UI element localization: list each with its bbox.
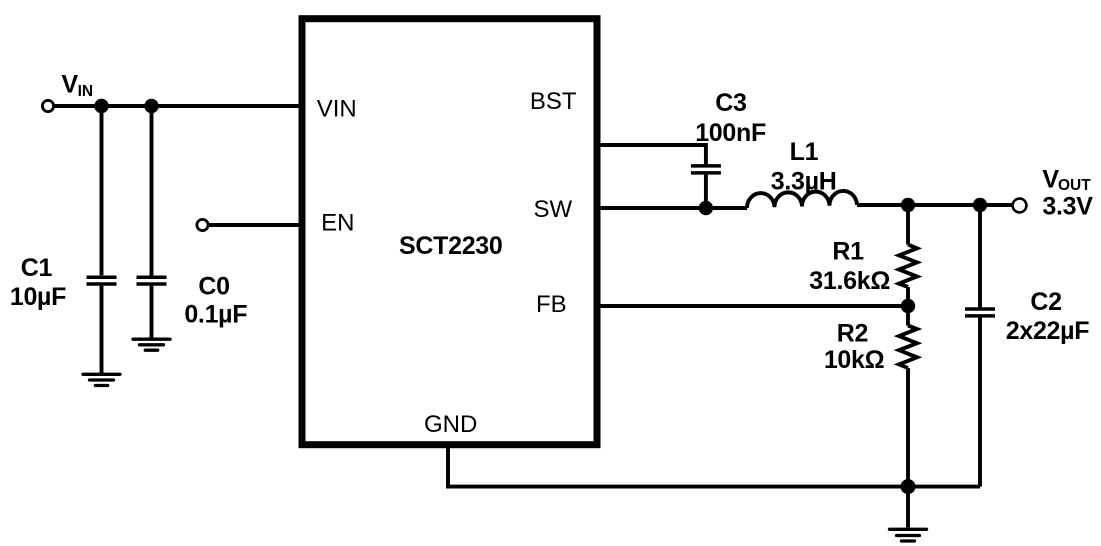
svg-text:C1: C1 xyxy=(21,254,53,282)
junction dot SW/C3 xyxy=(699,201,713,215)
capacitor C3 plates xyxy=(691,166,721,173)
inductor L1 xyxy=(747,191,857,208)
capacitor C2 plates xyxy=(965,309,995,316)
svg-text:100nF: 100nF xyxy=(695,119,766,147)
svg-text:3.3V: 3.3V xyxy=(1042,193,1093,221)
junction dot at C1 xyxy=(94,99,108,113)
wire C0 upper xyxy=(150,106,154,276)
svg-text:V: V xyxy=(62,71,79,99)
svg-text:10µF: 10µF xyxy=(10,283,66,311)
junction dot ground node xyxy=(901,479,916,494)
junction dot FB node xyxy=(901,299,915,313)
svg-text:R2: R2 xyxy=(837,320,868,348)
wire VIN input rail xyxy=(54,104,303,108)
svg-text:VIN: VIN xyxy=(317,95,357,122)
junction dot C2 top xyxy=(973,198,987,212)
svg-text:EN: EN xyxy=(321,210,354,237)
svg-text:L1: L1 xyxy=(790,138,819,166)
junction dot R1 top xyxy=(901,198,915,212)
wire FB xyxy=(597,304,908,308)
wire to ground symbol xyxy=(906,487,910,528)
svg-text:C3: C3 xyxy=(715,89,746,117)
svg-text:IN: IN xyxy=(78,83,94,100)
wire C2 upper lead xyxy=(978,205,982,307)
wire C3 to SW node xyxy=(704,175,708,208)
svg-text:3.3µH: 3.3µH xyxy=(771,167,837,195)
wire R1 upper lead xyxy=(906,205,910,245)
svg-text:C0: C0 xyxy=(198,272,229,300)
terminal EN xyxy=(197,219,208,230)
wire C1 upper xyxy=(100,106,104,275)
wire BST to C3 xyxy=(597,145,706,164)
svg-text:SW: SW xyxy=(534,196,573,223)
wire C0 lower xyxy=(150,286,154,339)
terminal VOUT xyxy=(1013,199,1027,213)
wire output rail xyxy=(857,203,1013,207)
capacitor C0 plates xyxy=(137,277,167,284)
ground main xyxy=(890,529,927,541)
wire GND pin drop and bottom rail xyxy=(448,445,980,487)
ground below C0 xyxy=(133,339,170,350)
svg-text:BST: BST xyxy=(530,88,577,115)
wire SW to inductor xyxy=(597,206,747,210)
svg-text:31.6kΩ: 31.6kΩ xyxy=(809,267,890,295)
resistor R2 zigzag xyxy=(899,326,917,369)
capacitor C1 plates xyxy=(87,277,117,284)
svg-text:GND: GND xyxy=(424,411,477,438)
junction dot at C0 xyxy=(144,99,158,113)
svg-text:SCT2230: SCT2230 xyxy=(399,232,503,260)
svg-text:FB: FB xyxy=(536,291,567,318)
svg-text:2x22µF: 2x22µF xyxy=(1006,317,1090,345)
svg-text:C2: C2 xyxy=(1030,288,1061,316)
wire EN xyxy=(208,223,302,227)
wire R2 upper lead xyxy=(906,306,910,326)
wire R1 lower lead xyxy=(906,287,910,306)
op-amp U1 : IC body SCT2230 xyxy=(302,19,597,445)
terminal VIN input xyxy=(42,100,53,111)
svg-text:V: V xyxy=(1042,166,1059,194)
ground below C1 xyxy=(83,374,120,385)
svg-text:R1: R1 xyxy=(832,238,864,266)
wire C1 lower xyxy=(100,286,104,374)
svg-text:10kΩ: 10kΩ xyxy=(824,346,885,374)
svg-text:0.1µF: 0.1µF xyxy=(184,300,247,328)
resistor R1 zigzag xyxy=(899,245,917,288)
wire R2 lower lead xyxy=(906,368,910,487)
wire C2 lower lead xyxy=(978,318,982,487)
